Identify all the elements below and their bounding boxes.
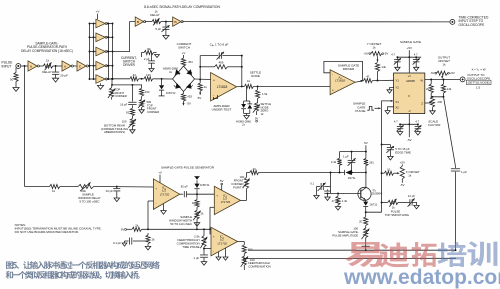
stack right outer rail (112, 23, 114, 80)
svg-text:2k: 2k (201, 211, 205, 215)
feedback resistor 499 (200, 60, 242, 69)
resistor 2k bias (132, 223, 142, 231)
svg-text:1N5712: 1N5712 (166, 91, 176, 95)
diode 1N5712 (159, 79, 176, 96)
svg-text:-: - (332, 72, 333, 76)
svg-text:Z: Z (421, 101, 423, 105)
wire 20k to comparator 1 (94, 186, 154, 188)
svg-text:0.1 µF: 0.1 µF (113, 241, 121, 245)
svg-text:16 pF: 16 pF (120, 103, 127, 107)
potentiometer settle node zero (253, 98, 260, 115)
svg-text:14k: 14k (381, 65, 386, 69)
resistor 2k bias lower (145, 233, 155, 250)
label settle node (250, 70, 261, 78)
diode 1N711 (bias, inline) (345, 170, 356, 180)
ground below 2k pot (194, 219, 200, 226)
svg-text:47: 47 (366, 75, 370, 79)
comparator IC1a LT1720 (153, 179, 179, 210)
ground at Y2 (387, 88, 394, 94)
svg-text:DRIVER: DRIVER (343, 67, 355, 71)
ground below stack (97, 83, 103, 89)
svg-text:5 pF: 5 pF (155, 27, 161, 31)
svg-text:1k: 1k (46, 58, 50, 62)
label current switch (177, 42, 192, 49)
ground arrow right of 82 (154, 53, 160, 58)
svg-text:2 µF: 2 µF (144, 57, 150, 61)
notes text (15, 223, 102, 234)
svg-text:1N5711: 1N5711 (200, 183, 210, 187)
resistor 3.4k (331, 152, 342, 173)
wire pot to A2 (53, 65, 62, 67)
svg-text:1k: 1k (247, 79, 251, 83)
svg-text:Y1: Y1 (395, 78, 399, 82)
svg-text:-5V: -5V (407, 138, 412, 142)
svg-text:Y2: Y2 (395, 86, 399, 90)
wire pulse amplitude chain to rail (365, 246, 367, 250)
capacitor 0.1 uF bias (113, 238, 148, 247)
svg-text:FACTOR: FACTOR (428, 123, 441, 127)
svg-text:82 pF: 82 pF (181, 185, 188, 189)
resistor 261 (364, 152, 375, 173)
resistor 1.4k base (335, 193, 347, 210)
svg-text:4.7: 4.7 (394, 120, 398, 124)
resistor 2k output divider (426, 80, 433, 93)
capacitor 1 uF (time phase) (194, 249, 208, 266)
grounds below comparator 3 (216, 248, 228, 260)
label current-switch driver (121, 56, 137, 67)
svg-text:5V: 5V (121, 228, 125, 232)
svg-text:-V: -V (408, 109, 411, 113)
label sample gate pulse (353, 102, 366, 114)
wire 2.5k to comparator 3 (203, 248, 211, 250)
label Q1 2N3904 (372, 188, 382, 195)
potentiometer 1k pulse top smoothing (388, 199, 398, 210)
svg-text:TOP SMOOTHING: TOP SMOOTHING (385, 213, 410, 217)
svg-text:W: W (420, 78, 423, 82)
svg-text:82: 82 (126, 110, 130, 114)
watermark url www.edatop.com (343, 266, 500, 289)
svg-text:SAMPLE-GATE-PULSE GENERATOR: SAMPLE-GATE-PULSE GENERATOR (161, 166, 215, 170)
wire 130 to bridge (153, 78, 173, 80)
label sample window delay (78, 189, 101, 204)
svg-text:20 pF: 20 pF (60, 74, 68, 78)
resistor 50 ohm input termination (10, 68, 18, 82)
ground below 50 ohm (13, 82, 19, 92)
label HSMS-2860 2x (236, 119, 251, 126)
label front corner purity (231, 175, 244, 190)
resistor 150 (140, 88, 150, 96)
svg-text:LT1818: LT1818 (335, 79, 345, 83)
svg-text:5V: 5V (364, 141, 368, 145)
svg-text:453: 453 (188, 60, 193, 64)
label HSMS-2860 4x (163, 67, 179, 74)
potentiometer 1k delay (input chain) (42, 58, 53, 74)
resistor 14k (Y offset) (375, 62, 386, 80)
svg-text:1 µF: 1 µF (343, 155, 349, 159)
svg-text:PULSE AMPLITUDE: PULSE AMPLITUDE (332, 234, 358, 238)
svg-text:20: 20 (253, 167, 257, 171)
resistor 453 lower (181, 92, 192, 102)
supply +V for stack (96, 10, 101, 20)
potentiometer 1k DELAY (top chain) (150, 10, 161, 26)
svg-text:www.edatop.com: www.edatop.com (343, 266, 500, 289)
wire 43 to 130 (139, 78, 144, 80)
terminal J1 pulse input (16, 64, 21, 69)
trimmer cap 4.7 right top (413, 52, 420, 70)
watermark chinese characters (345, 241, 498, 267)
label top front corner (left) (115, 88, 127, 98)
svg-text:CORNER: CORNER (147, 110, 159, 114)
wire divider join (431, 93, 444, 98)
wire AUT output (237, 85, 245, 87)
svg-text:1k: 1k (204, 85, 208, 89)
label feedthrough compensation time phase (177, 235, 200, 249)
svg-text:LT1720: LT1720 (218, 241, 228, 245)
potentiometer 100 corner-trailing (122, 116, 136, 128)
comparator IC1b LT1720 (214, 186, 240, 214)
svg-text:+V: +V (96, 10, 101, 14)
inverter B1 (135, 17, 146, 26)
wire input vertical rail to pulse generator (24, 66, 26, 187)
supply +V comparator 1 (158, 171, 162, 183)
inverter B2 (173, 17, 184, 26)
bypass wire top (396, 56, 421, 58)
potentiometer X offset 1k (394, 160, 405, 187)
transistor Q1 2N3904 (358, 172, 371, 202)
svg-text:SWITCH: SWITCH (178, 46, 190, 50)
svg-text:1 µF: 1 µF (194, 256, 200, 260)
supply -5V below bridge (182, 101, 191, 105)
resistor 82 bypass (142, 47, 154, 57)
capacitor 16 pF (120, 85, 136, 107)
label X offset (406, 170, 420, 178)
supply +V current switch (182, 51, 186, 58)
svg-text:1k: 1k (52, 189, 56, 193)
svg-text:TIME PHASE: TIME PHASE (182, 245, 199, 249)
svg-text:-5V: -5V (400, 183, 404, 187)
svg-text:1.5k: 1.5k (262, 92, 268, 96)
svg-text:43: 43 (133, 73, 137, 77)
capacitor 10 pF (window) (106, 187, 121, 202)
svg-text:4.7: 4.7 (391, 52, 395, 56)
svg-text:-: - (216, 208, 217, 212)
inverter C (77, 61, 88, 71)
inverter stack T2 (96, 33, 107, 42)
bridge diode arrows (174, 71, 193, 87)
svg-text:20: 20 (359, 220, 363, 224)
label sample gate driver box (338, 63, 359, 71)
trimmer pot top front corner (108, 85, 115, 98)
svg-text:10 pF: 10 pF (106, 189, 114, 193)
svg-text:+V: +V (158, 171, 162, 175)
svg-text:1k: 1k (442, 63, 446, 67)
resistor 20 (corner purity) (247, 167, 259, 175)
svg-text:INPUT: INPUT (2, 64, 12, 68)
diode bridge HSMS-2860 (173, 66, 195, 92)
svg-text:12 pF: 12 pF (408, 194, 415, 198)
wire -V AD835 (408, 114, 410, 138)
sub-row wire (111, 79, 142, 88)
svg-text:2N3904: 2N3904 (372, 191, 382, 195)
label sample-gate delay compensation (21, 42, 73, 53)
caption line 1 (6, 261, 160, 269)
resistor 1k settle (244, 79, 253, 89)
caption line 2 (6, 271, 140, 279)
resistor 20 (pulse amplitude) (359, 212, 368, 225)
label time-corrected input step (459, 16, 489, 27)
trimmer capacitor 5 pF to ground (155, 22, 169, 40)
terminal output to oscilloscope (460, 77, 465, 82)
svg-text:COMPENSATION: COMPENSATION (248, 265, 270, 269)
capacitor 2 uF (144, 53, 155, 72)
svg-text:-5V: -5V (384, 52, 389, 56)
terminal time-corrected step (450, 19, 455, 24)
potentiometer 100 sample-gate pulse amplitude (362, 225, 370, 246)
resistor 43 (130, 73, 139, 81)
X1 rail vertical (381, 108, 383, 212)
svg-text:14k: 14k (447, 87, 452, 91)
svg-text:ABERRATIONS): ABERRATIONS) (104, 130, 125, 134)
svg-text:1k: 1k (408, 173, 412, 177)
svg-text:PURITY: PURITY (233, 185, 244, 189)
svg-text:-5V: -5V (197, 96, 202, 100)
ground below 500 pot (139, 107, 144, 113)
supply -5V AD835 (407, 138, 412, 142)
trimmer cap 4.7 left top (391, 52, 401, 70)
comparator 2 inverting input wire (209, 207, 214, 234)
wire window width chain join (196, 222, 198, 229)
ground comparator 1 (161, 204, 167, 214)
svg-text:+5V: +5V (400, 160, 405, 164)
supply -5V below 1k (197, 91, 202, 100)
svg-text:3.4k: 3.4k (331, 160, 337, 164)
potentiometer Y offset (364, 52, 389, 62)
svg-text:UNDER TEST: UNDER TEST (212, 108, 232, 112)
svg-text:OSCILLOSCOPE: OSCILLOSCOPE (459, 23, 486, 27)
node PULSE INPUT label (2, 61, 14, 69)
trimmer cap edge time (382, 145, 394, 161)
svg-text:499: 499 (219, 60, 224, 64)
svg-text:+5V: +5V (407, 46, 412, 50)
wire trimmer to row99 (111, 97, 113, 99)
svg-text:+V: +V (408, 74, 412, 78)
op-amp A4 LT1818 sample gate driver (330, 70, 355, 95)
ground at X2 (385, 107, 394, 114)
wire A1 to delay pot (39, 65, 43, 67)
supply arrow above 1N5711 (194, 176, 199, 179)
resistor 453 upper (181, 58, 193, 66)
svg-text:+5V: +5V (364, 52, 369, 56)
stack left outer rail (89, 23, 91, 80)
label X.Y=W output to oscilloscope (466, 67, 491, 89)
potentiometer 2.5k feedthrough time phase (200, 229, 207, 248)
svg-text:261: 261 (369, 160, 374, 164)
capacitor 82 pF coupling (180, 185, 188, 198)
capacitor 20 pF to ground (52, 66, 68, 82)
svg-text:0.1: 0.1 (310, 182, 314, 186)
wire 1k to 20k (60, 186, 78, 188)
clamp diodes HSMS-2860 2x (241, 86, 252, 119)
svg-text:LT1818: LT1818 (217, 85, 228, 89)
svg-text:DRIVER: DRIVER (123, 63, 136, 67)
wire bridge to AUT input (195, 79, 211, 81)
comparator 2 output wire (241, 189, 247, 201)
label sample-gate pulse amplitude (332, 226, 358, 237)
svg-text:150: 150 (145, 90, 150, 94)
svg-text:AD835: AD835 (406, 79, 415, 83)
wire B1 to 1k delay pot (145, 21, 152, 23)
ground below 200 pot (430, 107, 436, 114)
comparator 1 reference wire (148, 201, 153, 229)
resistor 1k AUT input bias (198, 80, 207, 92)
svg-text:1N711: 1N711 (348, 176, 356, 180)
bias wire y151 (340, 151, 367, 153)
supply 5V comparator 2 (220, 179, 224, 190)
label settle node zero (261, 102, 272, 116)
supply 5V settle zero (255, 116, 259, 122)
wire A4 output (355, 80, 363, 82)
svg-text:DELAY: DELAY (150, 13, 160, 17)
wire 47 to Y1 pin (373, 80, 394, 82)
AUT power pin stub (214, 95, 218, 100)
resistor 1.5k settle divider (256, 86, 268, 98)
row wire y78 left segment (108, 78, 129, 80)
op-amp U1 LT1818 amplifier under test (211, 73, 237, 102)
label Y offset (367, 42, 382, 50)
feedback right rail (241, 55, 243, 87)
capacitor 47 pF to ground (324, 189, 339, 202)
svg-text:1k: 1k (372, 45, 376, 49)
inverter stack T1 (96, 19, 107, 28)
wire base (331, 192, 361, 194)
potentiometer 2k sample window width (193, 207, 204, 220)
label sample window width (169, 215, 192, 226)
trimmer cap 4.7 right bottom (414, 120, 421, 136)
svg-text:X1: X1 (395, 100, 399, 104)
svg-text:DO NOT USE BOARD-MOUNTED RESIS: DO NOT USE BOARD-MOUNTED RESISTOR. (15, 230, 79, 234)
svg-text:82: 82 (147, 47, 151, 51)
resistor 130 (144, 73, 153, 81)
label pulse top smoothing (385, 209, 410, 217)
inverter A2 (62, 61, 73, 71)
arrow pulse to X1 rail (375, 107, 381, 109)
svg-text:SAMPLE GATE: SAMPLE GATE (400, 40, 421, 44)
pulse generator input row (25, 186, 50, 188)
svg-text:50 TO 110 nSEC: 50 TO 110 nSEC (170, 222, 192, 226)
svg-text:130: 130 (146, 73, 151, 77)
svg-text:X • Y1 = W: X • Y1 = W (472, 67, 486, 72)
ground below 100 pot (130, 127, 135, 134)
comparator 3 output (238, 242, 245, 245)
bottom rail (return bus) (248, 249, 456, 251)
wire W output (425, 79, 460, 81)
long wire y172 (259, 172, 367, 174)
svg-text:-: - (213, 249, 214, 253)
diode 1N5711 (window) (194, 180, 209, 194)
svg-text:(SETTLE NODE): (SETTLE NODE) (468, 80, 490, 84)
wire input to A1 (21, 65, 28, 67)
svg-text:LT1720: LT1720 (221, 200, 231, 204)
svg-text:10: 10 (387, 168, 391, 172)
label signal-path-delay compensation title (144, 5, 220, 9)
label edge time (395, 147, 411, 154)
svg-text:9 TO 150 nSEC: 9 TO 150 nSEC (79, 200, 99, 204)
svg-text:CORNER: CORNER (115, 94, 127, 98)
multiplier U2 AD835 (394, 73, 425, 114)
svg-text:+: + (213, 235, 215, 239)
feedback cap Ca 1 TO 8 pF (200, 42, 242, 59)
wire B2 to oscilloscope terminal (182, 21, 450, 23)
bypass wire bottom (399, 123, 419, 125)
label bottom rear corner-trailing aberrations (101, 124, 128, 134)
wire X1 input (382, 100, 393, 109)
svg-text:+: + (216, 194, 218, 198)
pulse glyph (367, 106, 374, 110)
label scale factor (428, 119, 441, 127)
resistor 10 (X offset) (382, 168, 394, 176)
stack left inner rail (90, 23, 96, 80)
svg-text:EDGE TIME: EDGE TIME (395, 150, 411, 154)
svg-text:+5V: +5V (450, 71, 455, 75)
svg-text:-5V: -5V (430, 71, 435, 75)
svg-text:2k: 2k (135, 223, 139, 227)
svg-text:1.4k: 1.4k (342, 199, 348, 203)
trimmer cap 12 pF smoothing (398, 194, 419, 209)
bias row wire (142, 228, 210, 230)
feedback left rail (199, 56, 201, 80)
emitter node wire to X1 rail (365, 211, 382, 213)
zener 1N711 emitter (363, 202, 378, 213)
potentiometer output offset (430, 71, 455, 78)
svg-text:1.5: 1.5 (476, 85, 481, 89)
potentiometer 100 front corner purity (243, 173, 250, 189)
wire pot to B2 (161, 21, 173, 23)
svg-text:1N711: 1N711 (369, 202, 377, 206)
label sample-gate-pulse generator (161, 166, 215, 170)
comparator IC2 LT1720 (211, 227, 238, 256)
label feedthrough compensation amplitude (248, 258, 270, 269)
label amplifier under test (212, 104, 232, 112)
svg-text:8.6-nSEC SIGNAL-PATH-DELAY COM: 8.6-nSEC SIGNAL-PATH-DELAY COMPENSATION (144, 5, 220, 9)
supply +5V AD835 (407, 46, 412, 73)
svg-text:CA, 1 TO 8 pF: CA, 1 TO 8 pF (210, 42, 229, 47)
label output offset (438, 56, 451, 67)
svg-text:DELAY COMPENSATION (16 nSEC): DELAY COMPENSATION (16 nSEC) (21, 49, 73, 53)
stack right inner rail (106, 23, 112, 80)
wire A2 to C (73, 65, 77, 67)
inverter stack T5 (96, 75, 107, 84)
svg-text:PULSE: PULSE (355, 109, 365, 113)
svg-text:1 µF: 1 µF (461, 170, 467, 174)
label sample gate (top) (400, 40, 421, 44)
svg-text:5V: 5V (255, 116, 259, 120)
supply 5V bias row (121, 228, 132, 232)
trimmer cap 4.7 left bottom (394, 120, 404, 136)
potentiometer 20k sample window delay (78, 182, 94, 191)
svg-text:+: + (155, 186, 157, 190)
svg-text:453: 453 (187, 95, 192, 99)
wire C to stack rail (88, 65, 89, 67)
inverter stack T4 (96, 61, 107, 70)
svg-text:200: 200 (437, 100, 442, 104)
wire stack output to top delay chain (113, 22, 136, 52)
svg-text:50: 50 (10, 78, 14, 82)
wire settle node to A4 (253, 85, 330, 87)
svg-text:+: + (332, 88, 334, 92)
capacitor 1 uF output (451, 166, 467, 250)
svg-text:X: X (408, 94, 410, 98)
svg-text:5V: 5V (220, 179, 224, 183)
